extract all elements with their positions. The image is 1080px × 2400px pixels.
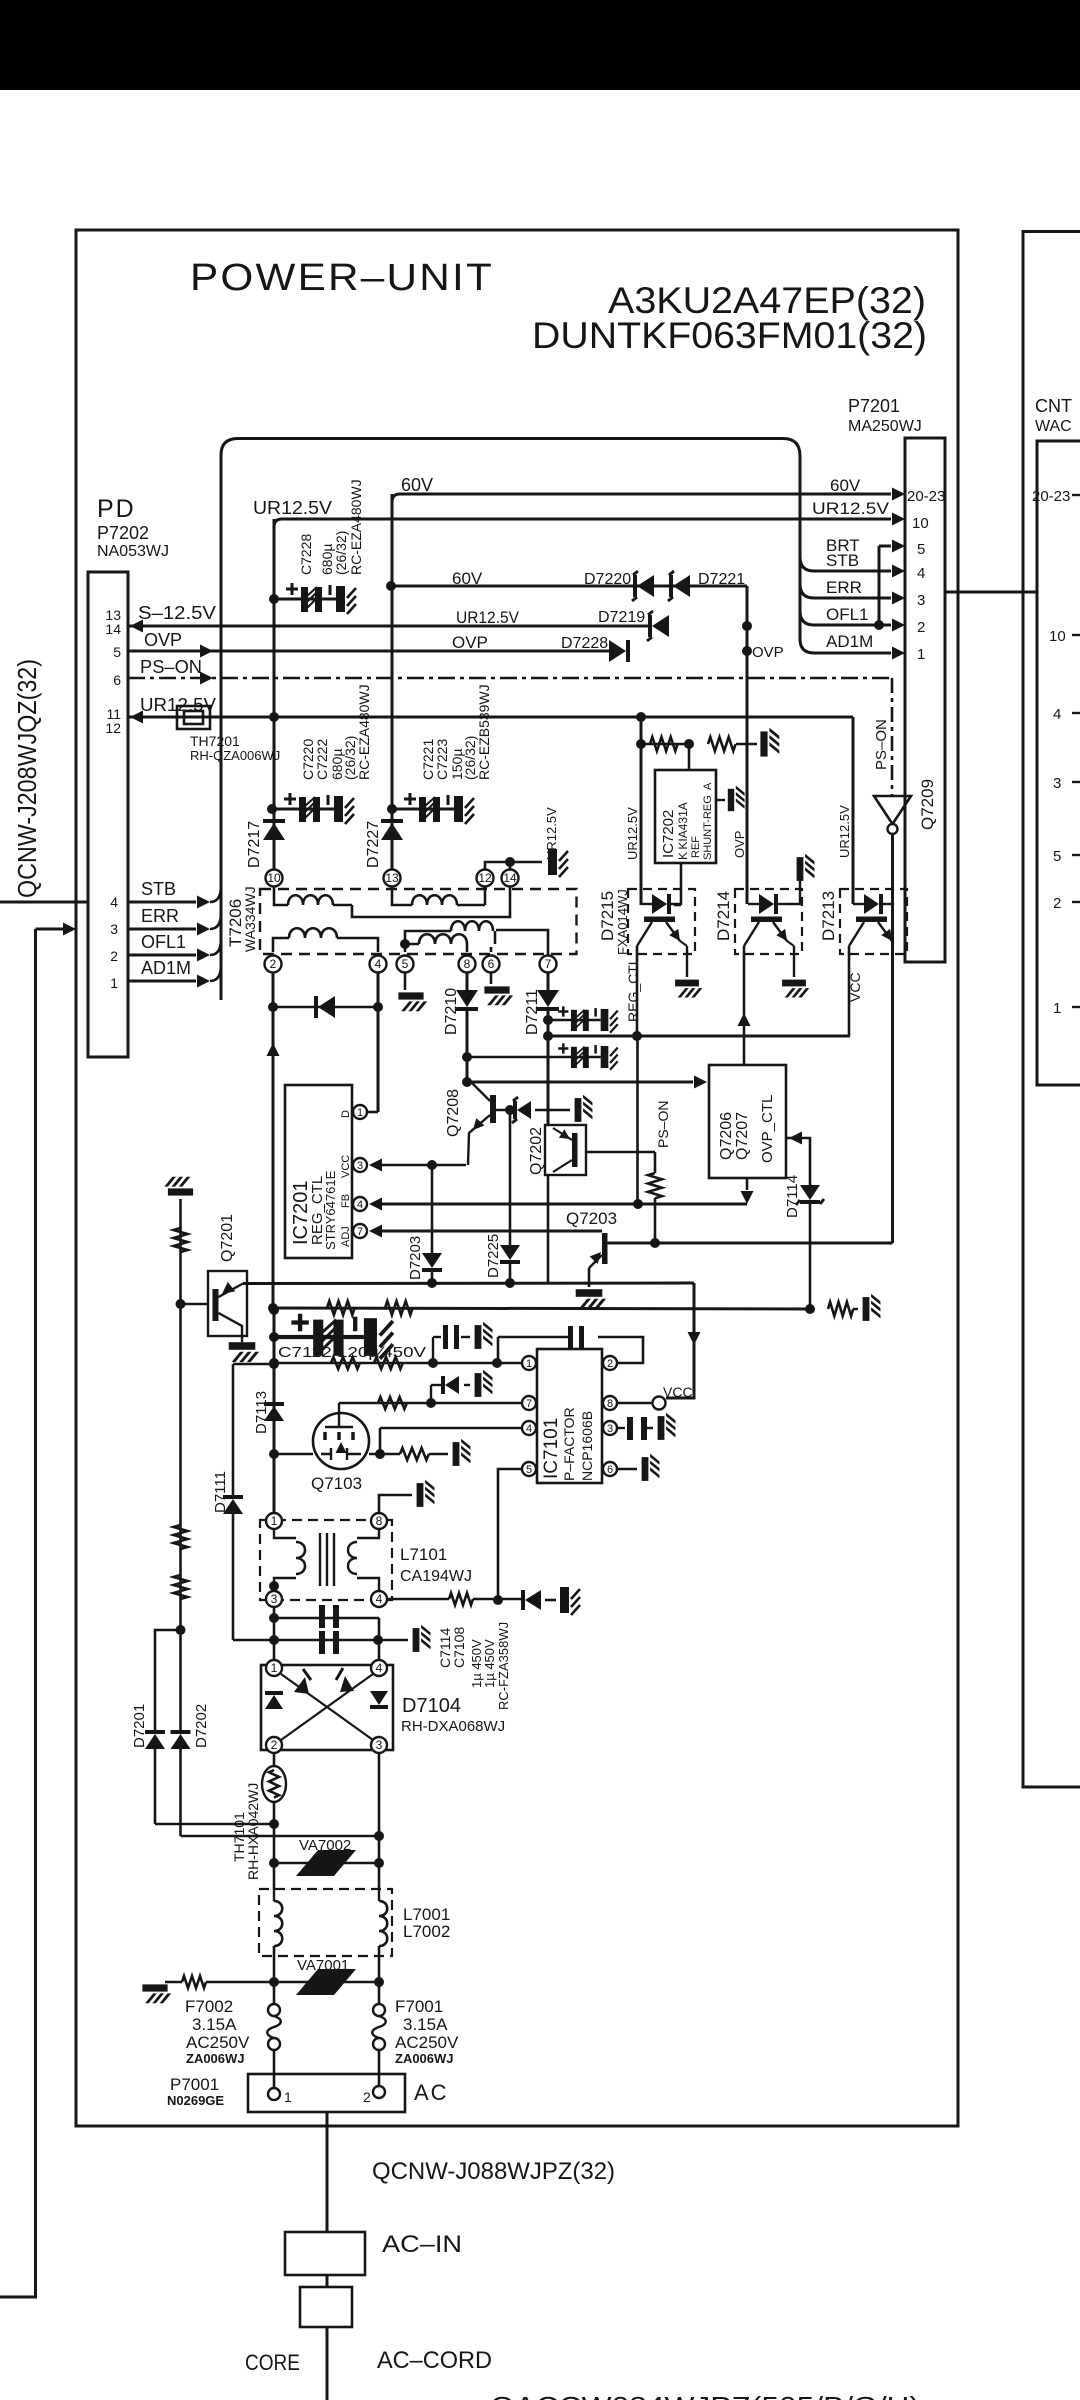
right unit border [1023,232,1080,1788]
svg-text:4: 4 [1053,706,1061,723]
svg-text:REF: REF [690,836,702,858]
diode D7202 [179,1630,182,1730]
T7206 winding aux [405,931,451,944]
svg-text:RC-EZB539WJ: RC-EZB539WJ [476,684,492,780]
svg-text:RC-EZA480WJ: RC-EZA480WJ [356,684,372,780]
D7214 collector wire [743,946,746,1065]
IC7101 pin 4 [522,1421,536,1435]
IC7201 pin 1 [353,1105,367,1119]
svg-text:N0269GE: N0269GE [167,2093,224,2108]
T7206 pin 13 [384,870,401,887]
fuse F7002 [273,1982,276,2004]
svg-text:D7217: D7217 [246,821,263,868]
connector CNT box [1037,441,1080,1085]
svg-text:D7104: D7104 [402,1695,461,1717]
inverter Q7209 [874,796,911,824]
wire UR12.5V branch down [640,717,643,905]
wire IC7101 pin4 [380,1427,521,1430]
diode D7113 [264,1406,284,1421]
Q7209 output wire [891,834,894,1243]
svg-text:D7220: D7220 [584,571,631,588]
D7214 emitter ground wire [787,941,794,946]
ground at T7206 pin6 [484,986,513,1005]
transistor D7214 [735,889,802,954]
transformer T7206 dashed box [260,889,577,954]
diode D7211 [547,973,550,990]
svg-text:3: 3 [1053,775,1061,792]
wire FB resistors [274,1362,529,1365]
svg-text:3: 3 [110,921,118,937]
svg-text:ERR: ERR [826,578,862,597]
svg-text:AC–IN: AC–IN [382,2231,462,2258]
ground at pin3 [658,1413,676,1440]
ground at pin7 diode [475,1370,493,1397]
svg-text:STRY64761E: STRY64761E [323,1170,338,1250]
diode D7227 [381,823,403,840]
filter L7001 L7002 dashed box [259,1889,392,1956]
svg-text:D: D [340,1110,352,1118]
svg-text:OVP: OVP [144,630,182,650]
svg-text:OVP: OVP [452,633,488,652]
wire IC7202 K down [680,863,683,905]
T7206 winding 6-7 [490,947,493,952]
IC7101 pin 3 [603,1421,617,1435]
OVP_CTL output arrow [746,1178,749,1190]
T7206 pin 8 [459,956,476,973]
svg-text:NCP1606B: NCP1606B [579,1411,595,1481]
ground at Q7201 [229,1342,259,1362]
svg-text:8: 8 [376,1514,383,1528]
diode D7201 [145,1734,165,1749]
IC7101 pin 5 [522,1462,536,1476]
diode at PFC output [525,1590,541,1610]
resistor to ground [708,737,736,751]
wire S-12.5V [128,625,651,628]
svg-text:1: 1 [1053,1000,1061,1017]
L7101 winding right [357,1530,379,1538]
ground at D7215 emitter [675,980,702,998]
svg-text:4: 4 [526,1423,532,1435]
L7001 winding [273,1889,275,1901]
ground at D7214 emitter [782,980,809,998]
P7001 pin 1 [268,2088,280,2100]
wire STB to P7201 [800,557,891,571]
svg-text:2: 2 [607,1358,613,1370]
ground at pin6 [642,1454,660,1481]
svg-text:3: 3 [357,1160,363,1172]
svg-text:Q7202: Q7202 [528,1127,545,1175]
wire IC7101 pin7 [339,1402,521,1405]
ground at T7206 pin5 [398,992,427,1011]
wire Q7201 base [181,1303,208,1306]
diode D7228 [609,640,626,662]
left sense chain upper [179,1199,182,1304]
left sense chain lower [179,1304,182,1630]
svg-text:ZA006WJ: ZA006WJ [186,2051,245,2066]
svg-text:4: 4 [376,1592,383,1606]
T7206 pin 2 [265,956,282,973]
svg-text:SHUNT-REG: SHUNT-REG [702,795,714,860]
zener D7221 [673,575,690,597]
svg-text:AC: AC [414,2080,449,2105]
Q7103 source wire [274,1453,313,1456]
IC7101 pin8 VCC wire [617,1402,652,1405]
IC7101 pin 2 [603,1356,617,1370]
svg-text:OVP: OVP [732,831,747,858]
svg-text:7: 7 [357,1226,363,1238]
svg-text:(26/32): (26/32) [333,531,349,575]
OVP rail vertical [746,586,749,904]
diode D7111 branch [232,1364,235,1495]
svg-text:PS–ON: PS–ON [873,719,890,770]
wire pin4 resistor diode [388,1598,449,1601]
P7001 pin 2 [373,2086,385,2098]
ground at spur [142,1984,171,2003]
svg-text:3: 3 [271,1592,278,1606]
svg-text:CA194WJ: CA194WJ [400,1568,472,1585]
svg-text:14: 14 [105,621,121,637]
svg-text:6: 6 [488,957,495,971]
bridge diode diag a [294,1677,309,1694]
wire REG_CTL to FB [636,1036,639,1204]
svg-text:IC7202: IC7202 [660,810,677,858]
svg-text:D7221: D7221 [698,571,745,588]
IC7201 pin4 wire FB [380,1203,747,1206]
svg-text:PD: PD [97,495,136,523]
X-cap upper [274,1617,379,1620]
svg-text:STB: STB [141,879,176,899]
POWER-UNIT outer border [76,230,958,2126]
UR12.5V rail vertical left [273,519,276,869]
svg-text:2: 2 [270,957,277,971]
svg-text:FB: FB [340,1194,352,1208]
wire pin12 to cap [485,862,542,870]
IC7201 pin 4 [353,1197,367,1211]
svg-text:7: 7 [545,957,552,971]
svg-text:D7219: D7219 [598,609,645,626]
T7206 pin 7 [540,956,557,973]
resistor chain R a [174,1228,188,1252]
resistor chain R c [174,1575,188,1599]
wire to D7201 branch [155,1630,181,1730]
svg-text:F7001: F7001 [395,1997,443,2016]
svg-text:3: 3 [607,1423,613,1435]
X-cap lower [233,1639,408,1642]
svg-text:2: 2 [271,1738,278,1752]
svg-text:MA250WJ: MA250WJ [848,418,922,435]
svg-text:3.15A: 3.15A [192,2015,237,2034]
svg-text:L7101: L7101 [400,1545,447,1564]
svg-text:4: 4 [357,1199,363,1211]
svg-text:K KIA431A: K KIA431A [676,802,690,860]
bridge diagonals [281,1674,373,1740]
svg-text:1: 1 [110,975,118,991]
wire Q7202 LED return [547,1175,550,1283]
svg-text:D7227: D7227 [365,821,382,868]
svg-text:QCNW-J208WJQZ(32): QCNW-J208WJQZ(32) [12,659,42,898]
D7213 collector wire VCC [848,946,851,1036]
svg-text:UR12.5V: UR12.5V [812,499,890,518]
svg-text:10: 10 [1049,628,1066,645]
svg-text:A: A [702,782,714,790]
svg-text:REG_CTL: REG_CTL [625,957,641,1022]
transistor Q7201 box [208,1271,247,1336]
transistor D7215 [628,889,695,954]
wire from left bus with arrow [36,928,73,931]
varistor VA7002 [296,1850,356,1876]
wire pin3 down [273,1608,276,1664]
D7215 collector wire [636,946,639,1036]
fuse TH7201 [177,706,210,729]
wire UR12.5V horiz [128,716,853,719]
wire pin2 down [272,973,275,1308]
IC7201 pin 3 [353,1158,367,1172]
svg-text:8: 8 [607,1398,613,1410]
varistor VA7001 [296,1969,356,1995]
ground at pin1 cap [475,1322,493,1349]
IC7201 pin7 wire [380,1230,602,1233]
diode D7217 [263,823,285,840]
svg-text:ERR: ERR [141,906,179,926]
bridge D7104 box [261,1665,393,1750]
svg-text:D7201: D7201 [131,1704,148,1748]
svg-text:5: 5 [402,957,409,971]
wire OVP [128,650,609,653]
wire OFL1 [128,954,196,957]
zener D7219 [652,615,669,637]
UR12.5V rail right branch [852,717,855,904]
svg-text:2: 2 [917,619,925,636]
svg-text:PS–ON: PS–ON [140,657,202,677]
svg-text:AD1M: AD1M [141,958,191,978]
wire P7201 to CNT [945,591,1037,594]
L7101 pin 8 [371,1513,387,1529]
wire long bias rail [273,1308,811,1309]
svg-text:3: 3 [376,1738,383,1752]
svg-text:4: 4 [376,1661,383,1675]
svg-text:2: 2 [1053,895,1061,912]
IC7201 pin1 wire [367,1111,378,1114]
bus outline top [221,439,800,642]
ground at Q7203 [576,1289,606,1309]
wire REF to IC7202 [688,744,691,770]
IC7201 pin 7 [353,1224,367,1238]
D7104 pin 1 [266,1660,282,1676]
thermistor TH7101 [273,1754,276,1766]
svg-text:Q7103: Q7103 [311,1474,362,1493]
svg-text:4: 4 [110,894,118,910]
ground at IC7202 A [728,786,745,812]
IC7101 box [537,1349,602,1483]
T7206 winding 5-8 [405,944,419,952]
capacitor C7112 [274,1314,393,1359]
svg-text:Q7208: Q7208 [445,1089,462,1137]
svg-text:4: 4 [917,565,925,582]
IC7201 box [285,1085,352,1258]
CORE box [300,2287,352,2327]
svg-text:OFL1: OFL1 [826,605,869,624]
bus vertical left [220,455,223,1000]
wire into PD from left [0,901,88,904]
MOSFET Q7103 [313,1413,369,1469]
svg-text:5: 5 [917,541,925,558]
wire pin4 down to IC7201 pin1 [377,973,380,1112]
svg-text:D7225: D7225 [485,1234,502,1278]
wire UR12.5V to P7201 [274,519,891,527]
ground at D7214 [797,854,815,881]
svg-text:D7214: D7214 [714,891,733,941]
svg-text:VCC: VCC [340,1155,352,1178]
svg-text:10: 10 [912,515,929,532]
svg-text:1: 1 [526,1358,532,1370]
L7101 dashed box [260,1520,392,1600]
svg-text:3: 3 [917,592,925,609]
T7206 winding 13-12 [392,887,412,905]
IC7101 pin 7 [522,1396,536,1410]
svg-text:P7201: P7201 [848,396,900,416]
resistor chain R b [174,1525,188,1549]
ground spur resistor [165,1981,182,1983]
svg-text:Q7201: Q7201 [219,1214,236,1262]
svg-text:DUNTKF063FM01(32): DUNTKF063FM01(32) [532,315,927,356]
block Q7206 Q7207 OVP_CTL box [709,1065,786,1178]
svg-text:13: 13 [385,871,399,885]
svg-text:VCC: VCC [663,1384,693,1400]
wire D7225 vertical [509,1110,512,1245]
T7206 pin 5 [397,956,414,973]
wire main HV rail [273,1308,276,1512]
svg-text:20-23: 20-23 [1032,488,1070,505]
IC7202 box [655,770,716,863]
svg-text:Q7206: Q7206 [718,1112,735,1160]
IC7101 pin 6 [603,1462,617,1476]
svg-text:L7002: L7002 [403,1922,450,1941]
svg-text:Q7203: Q7203 [566,1209,617,1228]
svg-text:D7203: D7203 [407,1236,424,1280]
wire AD1M [128,980,196,983]
diode D7225 [500,1245,520,1260]
top black bar [0,0,1080,90]
D7104 pin 3 [371,1737,387,1753]
T7206 winding 10-14 [274,887,288,905]
svg-text:RC-FZA358WJ: RC-FZA358WJ [496,1622,511,1710]
T7206 winding 2-4 [273,938,289,952]
svg-text:Q7209: Q7209 [918,779,937,830]
svg-text:CNT: CNT [1035,396,1072,416]
svg-text:QACCW034WJPZ(505/B/G/H): QACCW034WJPZ(505/B/G/H) [490,2391,920,2400]
svg-text:RC-EZA480WJ: RC-EZA480WJ [348,479,364,575]
wire ERR to P7201 [800,584,891,598]
svg-text:UR12.5V: UR12.5V [544,807,559,860]
svg-text:UR12.5V: UR12.5V [837,805,852,858]
wire P7001 down [326,2112,329,2232]
Q7203 collector wire [608,1242,893,1245]
svg-text:3.15A: 3.15A [403,2015,448,2034]
L7101 pin 3 [266,1591,282,1607]
svg-text:5: 5 [1053,848,1061,865]
svg-text:5: 5 [526,1464,532,1476]
svg-text:IC7101: IC7101 [541,1418,562,1479]
svg-text:10: 10 [267,871,281,885]
D7104 pin 2 [266,1737,282,1753]
wire 60V to P7201 [392,494,891,502]
svg-text:60V: 60V [830,476,861,495]
svg-text:D7210: D7210 [443,988,460,1035]
wire from D7202 to VA rail [181,1835,380,1838]
ground right of Q7208 [575,1095,593,1122]
wire STB [128,901,196,904]
svg-text:OVP_CTL: OVP_CTL [759,1095,776,1163]
D7214 diode to ground wire [788,877,800,904]
wire OFL1 to P7201 [800,611,891,625]
ground at X-cap [413,1625,431,1652]
resistor at Q7103 source [400,1448,429,1460]
svg-text:2: 2 [363,2089,371,2105]
connector P7001 box [248,2074,405,2112]
svg-text:6: 6 [607,1464,613,1476]
wire ERR [128,928,196,931]
wire REG_CTL rail [548,1035,850,1038]
svg-text:C7222: C7222 [314,739,330,780]
svg-text:QCNW-J088WJPZ(32): QCNW-J088WJPZ(32) [372,2158,615,2185]
D7104 pin 4 [371,1660,387,1676]
svg-text:1: 1 [271,1661,278,1675]
svg-text:1µ 450V: 1µ 450V [482,1639,497,1688]
photocoupler Q7202 box [545,1125,586,1175]
left bus wire [0,929,36,2297]
IC7101 pin6 wire [617,1468,637,1470]
svg-text:7: 7 [526,1398,532,1410]
bridge diode right [370,1691,388,1705]
AC-IN box [285,2232,365,2275]
svg-text:1: 1 [284,2089,292,2105]
svg-text:RH-HXA042WJ: RH-HXA042WJ [245,1783,261,1880]
svg-text:OFL1: OFL1 [141,932,186,952]
diode D7114 [786,1138,810,1185]
svg-text:S–12.5V: S–12.5V [138,603,216,623]
IC7101 pin 1 [522,1356,536,1370]
L7101 core [320,1533,334,1586]
IC7101 pin2 wire [598,1337,643,1363]
svg-text:P–FACTOR: P–FACTOR [561,1407,577,1481]
capacitor to gnd PFC [560,1587,580,1615]
diode D7203 [431,1165,434,1253]
svg-text:AD1M: AD1M [826,632,873,651]
zener D7220 [637,575,654,597]
T7206 pin 6 [483,956,500,973]
bridge diode left [265,1695,283,1709]
L7101 winding left [274,1530,296,1538]
capacitor C7220 C7222 cluster [272,793,354,824]
capacitor to gnd near T7206 [548,849,568,877]
svg-text:ZA006WJ: ZA006WJ [395,2051,454,2066]
svg-text:D7111: D7111 [212,1471,229,1513]
capacitor C7221 C7223 cluster [392,793,474,824]
svg-text:UR12.5V: UR12.5V [456,608,520,627]
svg-text:OVP: OVP [752,644,784,661]
wire from D7201 to VA rail [155,1823,274,1826]
svg-text:12: 12 [478,871,492,885]
svg-text:1: 1 [271,1514,278,1528]
wire AC-IN to core [326,2275,329,2287]
ground at bias [863,1294,881,1321]
capacitor cluster at D7211 a [548,1006,618,1032]
wire bridge pin3 down [378,1754,381,1836]
transistor Q7203 [602,1233,608,1264]
svg-text:ADJ: ADJ [340,1226,352,1247]
diode at pin7 [430,1385,432,1403]
svg-text:2: 2 [110,948,118,964]
